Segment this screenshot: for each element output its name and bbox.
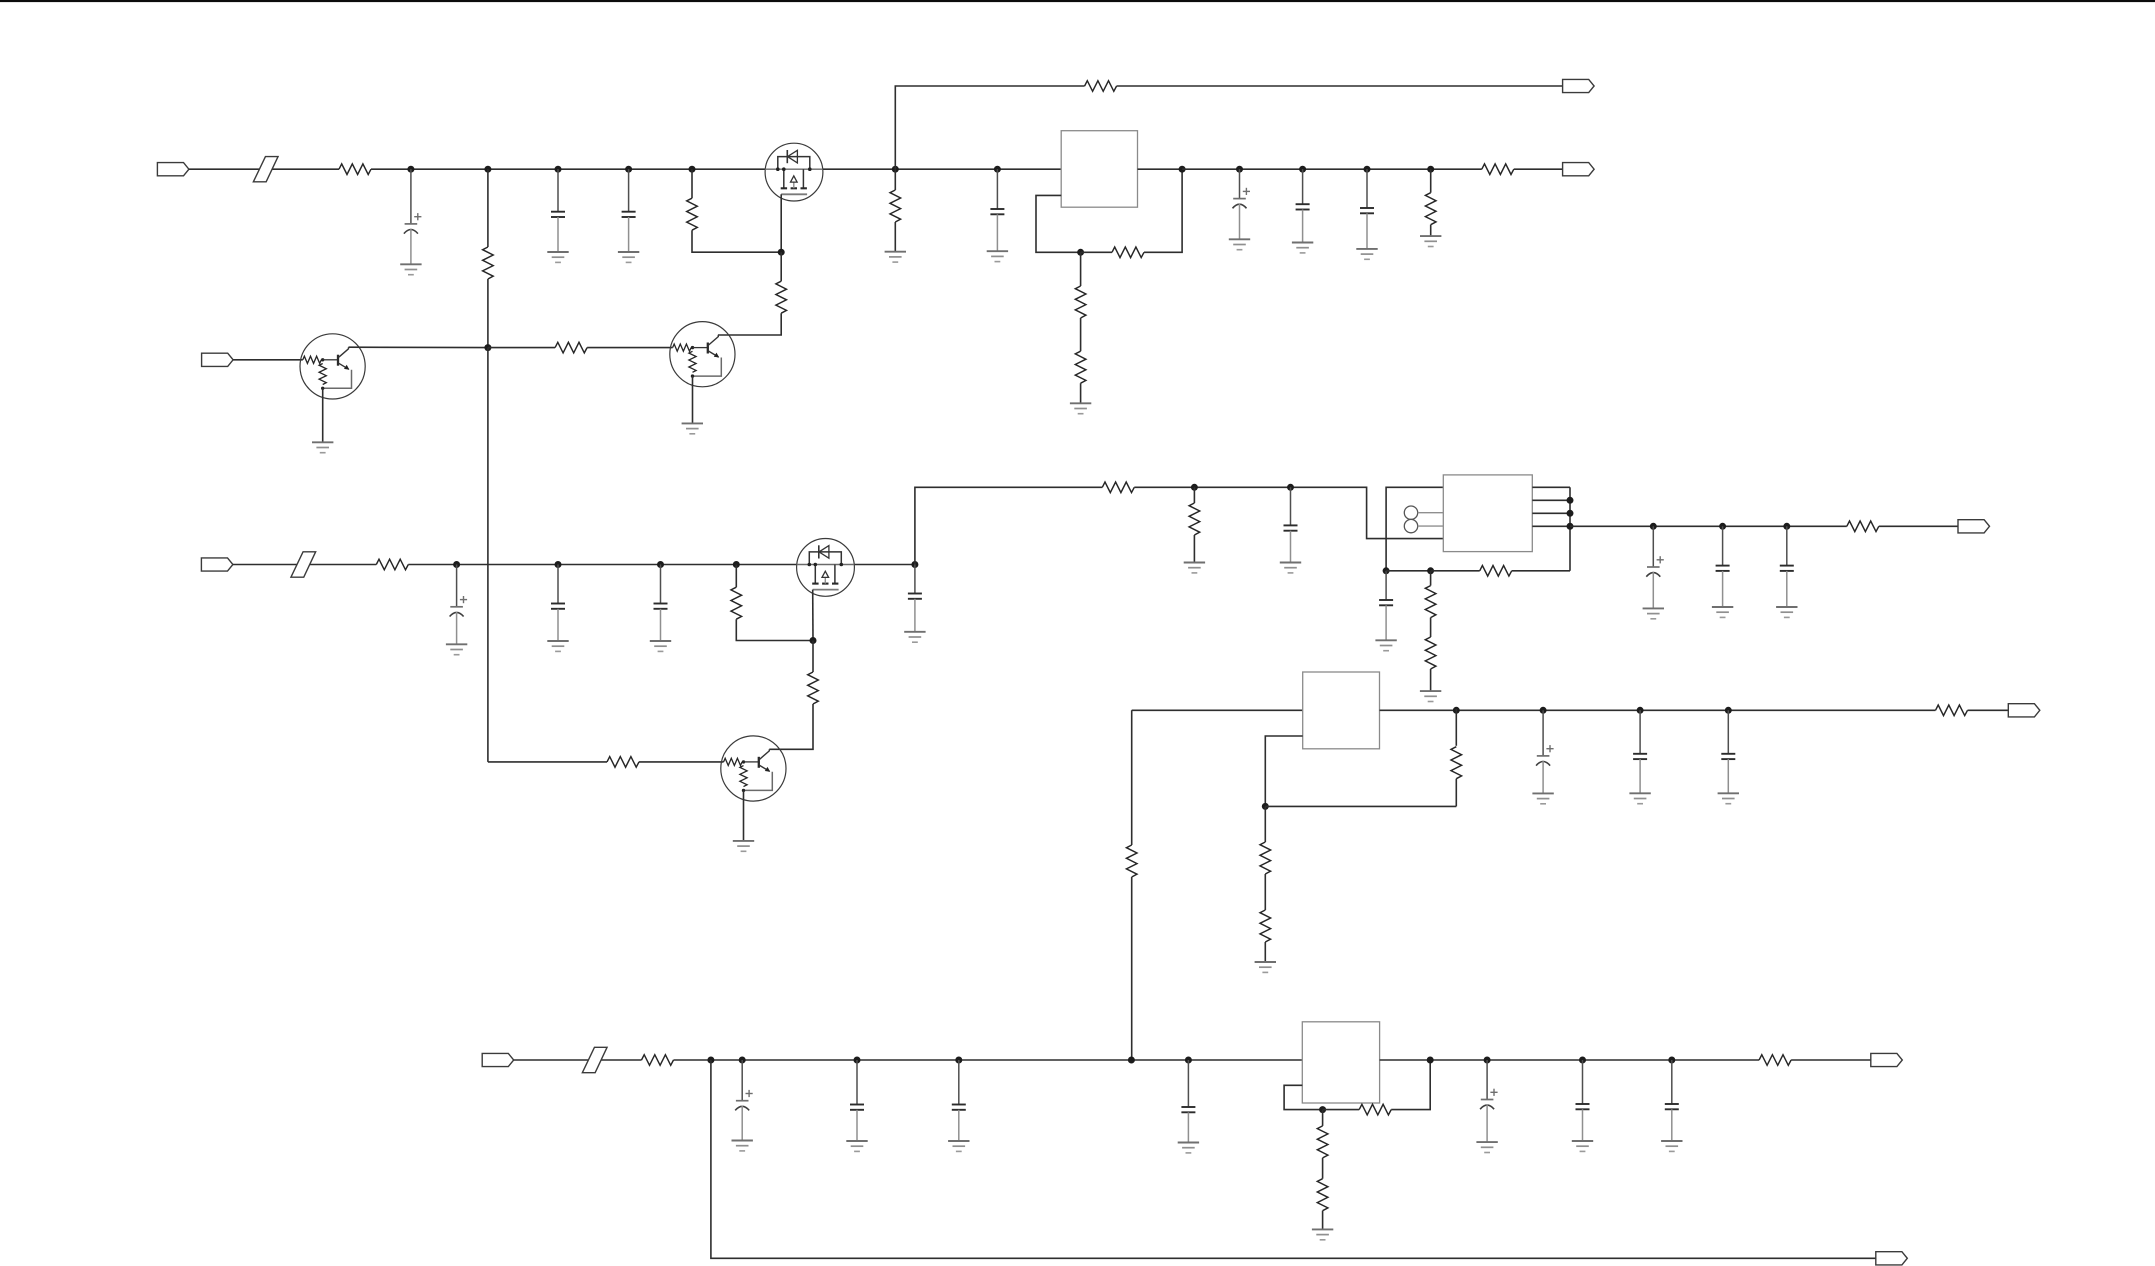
- node AA bus / Q2 collector: [484, 344, 491, 351]
- resistor R28: [642, 1055, 674, 1066]
- ground for C13 feedback: [1375, 640, 1396, 650]
- connector J3 output channel 1: [1563, 163, 1595, 176]
- node N9: [1668, 1057, 1675, 1064]
- wire riser G2 to U2 row: [915, 487, 1102, 564]
- capacitor C11: [908, 565, 922, 632]
- node B channel-1 rail / bus tap: [484, 166, 491, 173]
- node FBa feedback: [1383, 567, 1390, 574]
- node P2: [1287, 484, 1294, 491]
- capacitor C25: [1576, 1060, 1590, 1141]
- wire node G to R6: [894, 169, 896, 190]
- node C2 channel-2 rail: [657, 561, 664, 568]
- capacitor C9: [551, 565, 565, 642]
- wire J4 to Q2 base: [233, 359, 303, 361]
- wire R20 to R21: [1430, 618, 1432, 637]
- ground for C6: [1292, 243, 1313, 253]
- node E3a: [1540, 707, 1547, 714]
- connector J4 enable input: [202, 353, 234, 366]
- wire J5 to R13: [233, 564, 376, 566]
- ground for C16: [1776, 607, 1797, 617]
- node N8: [1579, 1057, 1586, 1064]
- indicator circles of U2: [1404, 506, 1443, 533]
- wire Q1 gate down to node F: [780, 194, 782, 252]
- resistor R5 top rail: [1085, 81, 1117, 92]
- ground for C9: [547, 641, 568, 651]
- wire R23 down to channel-4 rail: [1131, 877, 1133, 1060]
- ground for C1 electrolytic: [400, 264, 421, 274]
- wire node FBb to R20: [1430, 571, 1432, 586]
- wire channel-3 output rail: [1380, 709, 1936, 711]
- node U2 pin tie 3: [1567, 523, 1574, 530]
- resistor R9 divider lower: [1075, 351, 1086, 383]
- capacitor C20 electrolytic: [735, 1060, 753, 1141]
- node H channel-1 rail: [994, 166, 1001, 173]
- wire U1 output to node J: [1138, 168, 1183, 170]
- node N1 return tap: [707, 1057, 714, 1064]
- capacitor C7: [1360, 169, 1374, 249]
- wire node FB4 to R30: [1322, 1110, 1324, 1126]
- ground for C21: [846, 1141, 867, 1151]
- ground under R21: [1420, 691, 1441, 701]
- capacitor C13 feedback: [1379, 571, 1393, 641]
- wire R29 to output riser: [1391, 1060, 1430, 1110]
- wire node I to R8: [1080, 252, 1082, 286]
- wire Q4 gate down to node F2: [812, 590, 814, 641]
- ground for C17 electrolytic: [1532, 793, 1553, 803]
- wire FB3 to R24 bottom: [1265, 805, 1456, 807]
- wire Q5 base from bus: [488, 761, 607, 763]
- connector J9 return: [1876, 1252, 1908, 1265]
- resistor R10 load: [1425, 193, 1436, 225]
- node N3: [854, 1057, 861, 1064]
- node D2 channel-2 rail: [733, 561, 740, 568]
- wire channel-4 output rail: [1380, 1059, 1760, 1061]
- capacitor C3: [622, 169, 636, 252]
- ground for C23: [1178, 1143, 1199, 1153]
- capacitor C8 electrolytic: [450, 565, 468, 645]
- wire R3 to gate node F: [692, 230, 781, 252]
- node O1: [1650, 523, 1657, 530]
- node L channel-1 rail: [1299, 166, 1306, 173]
- node R3a output: [1453, 707, 1460, 714]
- resistor R8 divider upper: [1075, 286, 1086, 318]
- wire R31 to ground: [1322, 1211, 1324, 1230]
- node N2: [739, 1057, 746, 1064]
- node J channel-1 output: [1179, 166, 1186, 173]
- wire J8 to R28: [514, 1059, 642, 1061]
- resistor R14 gate pull-up: [731, 587, 742, 619]
- wire node E to R3: [691, 169, 693, 198]
- ground under Q3: [682, 423, 703, 433]
- wire riser node G to top rail: [895, 86, 1084, 169]
- capacitor C18: [1633, 710, 1647, 793]
- wire R19 to tie bar: [1512, 570, 1570, 572]
- wire R25 to R26: [1264, 874, 1266, 910]
- ground for C12: [1280, 563, 1301, 573]
- ground for C18: [1629, 793, 1650, 803]
- wire FB4 to R29: [1323, 1109, 1360, 1111]
- resistor R21 divider lower: [1425, 637, 1436, 669]
- wire node D2 to R14: [735, 565, 737, 588]
- ferrite bead FB3: [582, 1047, 607, 1072]
- node A channel-1 rail: [407, 166, 414, 173]
- wire R27 to J7: [1968, 709, 2009, 711]
- right pins of U2: [1532, 487, 1570, 526]
- connector J8 input channel 4: [482, 1053, 514, 1066]
- wire R16 to Q5 base: [639, 761, 724, 763]
- node FBt output: [1427, 1057, 1434, 1064]
- ground for C3: [618, 252, 639, 262]
- node F2 gate of Q4: [810, 637, 817, 644]
- node N5 bus junction: [1128, 1057, 1135, 1064]
- ground for C8 electrolytic: [446, 644, 467, 654]
- ground for C22: [948, 1141, 969, 1151]
- wire node R3a to R24: [1455, 709, 1457, 746]
- capacitor C1 electrolytic: [404, 169, 422, 264]
- wire U2 output tie bar: [1569, 487, 1571, 571]
- node B2 channel-2 rail: [555, 561, 562, 568]
- node G channel-1 rail: [892, 166, 899, 173]
- node F gate of Q1: [778, 249, 785, 256]
- capacitor C6: [1296, 169, 1310, 242]
- resistor R24 feedback: [1451, 747, 1462, 779]
- transistor Q1 P-MOSFET: [765, 143, 823, 201]
- node D channel-1 rail: [625, 166, 632, 173]
- connector J5 input channel 2: [201, 558, 233, 571]
- capacitor C4: [990, 169, 1004, 251]
- ground for C26: [1661, 1141, 1682, 1151]
- wire Q3 emitter to ground: [692, 376, 694, 423]
- resistor R18 to ground: [1189, 503, 1200, 535]
- resistor R1: [339, 164, 371, 175]
- regulator U2: [1443, 475, 1532, 552]
- transistor Q5 digital NPN: [721, 736, 786, 801]
- wire top rail to J2: [1117, 85, 1563, 87]
- ground for C7: [1356, 249, 1377, 259]
- resistor R25 divider upper: [1260, 842, 1271, 874]
- capacitor C21: [850, 1060, 864, 1141]
- resistor R12: [555, 342, 587, 353]
- wire R9 to ground: [1080, 383, 1082, 403]
- wire bus continues down: [487, 348, 489, 762]
- capacitor C19: [1721, 710, 1735, 793]
- node E3b: [1637, 707, 1644, 714]
- wire R15 to Q5 collector: [769, 704, 813, 749]
- capacitor C22: [952, 1060, 966, 1141]
- node U2 pin tie 1: [1567, 497, 1574, 504]
- resistor R13: [376, 559, 408, 570]
- wire bus node B down to R2: [487, 169, 489, 247]
- ground for C11: [904, 632, 925, 642]
- wire R17 to U2 jog: [1134, 487, 1443, 538]
- resistor R20 divider upper: [1425, 586, 1436, 618]
- node N6: [1185, 1057, 1192, 1064]
- capacitor C23: [1181, 1060, 1195, 1143]
- ground for C4: [987, 251, 1008, 261]
- capacitor C17 electrolytic: [1536, 710, 1554, 793]
- resistor R2 in bus: [483, 247, 494, 279]
- ground for C15: [1712, 607, 1733, 617]
- wire node AA to R12: [488, 347, 555, 349]
- wire R26 to ground: [1264, 942, 1266, 962]
- resistor R17: [1102, 482, 1134, 493]
- connector J6 output channel 2: [1958, 520, 1990, 533]
- ground under Q2: [312, 442, 333, 452]
- wire vertical feed to R23: [1131, 710, 1133, 845]
- wire J1 to R1: [189, 168, 339, 170]
- wire bus R2 down to node AA: [487, 279, 489, 348]
- node I feedback of U1: [1077, 249, 1084, 256]
- node E channel-1 rail: [689, 166, 696, 173]
- ground for C19: [1718, 793, 1739, 803]
- regulator U1: [1061, 131, 1137, 208]
- transistor Q3 digital NPN: [670, 322, 735, 387]
- wire R10 to ground: [1430, 225, 1432, 236]
- resistor R19 feedback: [1480, 566, 1512, 577]
- resistor R26 divider lower: [1260, 910, 1271, 942]
- wire R12 to Q3 base: [587, 347, 673, 349]
- regulator U4: [1302, 1022, 1379, 1103]
- node K channel-1 rail: [1236, 166, 1243, 173]
- resistor R11 output series: [1482, 164, 1514, 175]
- wire return line: [711, 1060, 1876, 1258]
- resistor R15 gate to Q5: [808, 672, 819, 704]
- regulator U3: [1303, 672, 1380, 749]
- resistor R31 divider lower: [1317, 1179, 1328, 1211]
- ground for C2: [547, 252, 568, 262]
- node A2 channel-2 rail: [453, 561, 460, 568]
- capacitor C2: [551, 169, 565, 252]
- ground for C5 electrolytic: [1229, 239, 1250, 249]
- resistor R4 gate to Q3: [776, 281, 787, 313]
- node FB4: [1319, 1106, 1326, 1113]
- wire U1 feedback pin: [1036, 195, 1081, 252]
- wire R32 to J10: [1791, 1059, 1871, 1061]
- wire channel-2 output rail: [1570, 525, 1847, 527]
- connector J2 output raw: [1563, 79, 1595, 92]
- wire FBa to FBb: [1386, 570, 1431, 572]
- resistor R30 divider upper: [1317, 1126, 1328, 1158]
- connector J10 output channel 4: [1871, 1053, 1903, 1066]
- ground under R9: [1070, 403, 1091, 413]
- wire R8 to R9: [1080, 318, 1082, 351]
- wire channel-1 rail R1 to Q1: [371, 168, 765, 170]
- connector J1 input channel 1: [157, 163, 189, 176]
- wire R14 to gate node F2: [736, 619, 813, 640]
- page frame top edge: [0, 0, 2155, 2]
- node P1: [1191, 484, 1198, 491]
- resistor R3 gate pull-up: [687, 198, 698, 230]
- resistor R6 to ground: [890, 190, 901, 222]
- capacitor C5 electrolytic: [1233, 169, 1251, 239]
- transistor Q2 digital NPN: [300, 334, 365, 399]
- wire Q5 emitter to ground: [743, 790, 745, 841]
- node G2 channel-2 switched output: [911, 561, 918, 568]
- resistor R32 output series: [1759, 1055, 1791, 1066]
- wire FBb to R19: [1431, 570, 1480, 572]
- connector J7 output channel 3: [2008, 704, 2040, 717]
- wire channel-1 rail Q1 to U1: [823, 168, 1061, 170]
- wire Q2 collector to bus: [349, 346, 488, 348]
- node O3: [1783, 523, 1790, 530]
- wire R24 lead: [1455, 779, 1457, 807]
- wire R11 to J3: [1514, 168, 1563, 170]
- node N7: [1484, 1057, 1491, 1064]
- wire node I to R7: [1081, 251, 1112, 253]
- ground under R10: [1420, 236, 1441, 246]
- ground for C10: [650, 641, 671, 651]
- wire U3 feedback pin: [1265, 736, 1302, 806]
- wire channel-2 rail R13 to Q4: [408, 564, 796, 566]
- capacitor C15: [1716, 526, 1730, 607]
- node U2 pin tie 2: [1567, 510, 1574, 517]
- capacitor C14 electrolytic: [1646, 526, 1664, 608]
- wire R22 to J6: [1879, 525, 1958, 527]
- wire channel-4 rail: [674, 1059, 1303, 1061]
- wire R6 to ground: [894, 222, 896, 252]
- resistor R29 feedback: [1359, 1104, 1391, 1115]
- capacitor C12: [1284, 487, 1298, 562]
- wire channel-2 rail Q4 to node G2: [854, 564, 915, 566]
- wire node P1 to R18: [1193, 487, 1195, 503]
- resistor R27 output series: [1936, 705, 1968, 716]
- ground under R18: [1184, 563, 1205, 573]
- node FBb feedback divider: [1427, 567, 1434, 574]
- wire Q2 emitter to ground: [322, 388, 324, 442]
- wire node F2 to R15: [812, 641, 814, 673]
- wire R18 to ground: [1193, 535, 1195, 563]
- wire R7 to node J riser: [1144, 169, 1182, 252]
- ground for C14 electrolytic: [1643, 608, 1664, 618]
- ground for C20 electrolytic: [732, 1141, 753, 1151]
- capacitor C24 electrolytic: [1480, 1060, 1498, 1142]
- ground for C24 electrolytic: [1476, 1142, 1497, 1152]
- wire channel-1 output rail: [1182, 168, 1482, 170]
- resistor R23 feed: [1126, 845, 1137, 877]
- node C channel-1 rail: [555, 166, 562, 173]
- wire U2 sense riser: [1386, 487, 1443, 571]
- resistor R22 output series: [1847, 521, 1879, 532]
- transistor Q4 P-MOSFET: [797, 539, 855, 597]
- capacitor C26: [1665, 1060, 1679, 1141]
- node E3c: [1725, 707, 1732, 714]
- resistor R16: [607, 757, 639, 768]
- ground for C25: [1572, 1141, 1593, 1151]
- resistor R7 feedback: [1112, 247, 1144, 258]
- node N channel-1 rail: [1427, 166, 1434, 173]
- node O2: [1719, 523, 1726, 530]
- node M channel-1 rail: [1364, 166, 1371, 173]
- node FB3: [1262, 803, 1269, 810]
- wire node F to R4: [780, 252, 782, 281]
- wire R4 to Q3 collector: [718, 313, 781, 335]
- ground under R31: [1312, 1229, 1333, 1239]
- ferrite bead FB2: [291, 552, 316, 577]
- wire U4 feedback pin: [1284, 1085, 1323, 1109]
- wire node FB3 to R25: [1264, 806, 1266, 842]
- capacitor C10: [654, 565, 668, 642]
- wire bus from channel-4 to U3: [1132, 709, 1303, 711]
- ground under Q5: [733, 841, 754, 851]
- ground under R26: [1255, 962, 1276, 972]
- wire node N to R10: [1430, 169, 1432, 193]
- ferrite bead FB1: [253, 157, 278, 182]
- wire R30 to R31: [1322, 1158, 1324, 1179]
- capacitor C16: [1780, 526, 1794, 607]
- ground under R6: [885, 252, 906, 262]
- node N4: [955, 1057, 962, 1064]
- wire R21 to ground: [1430, 669, 1432, 691]
